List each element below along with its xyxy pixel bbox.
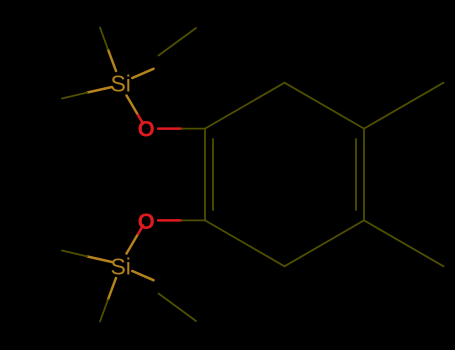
wire ring bond C5-B (bottom-right edge) <box>285 220 365 266</box>
wire O1-C1 bond carbon half <box>181 128 205 130</box>
svg-text:Si: Si <box>110 254 130 280</box>
wire ring bond C1=C2 inner line <box>212 139 214 210</box>
svg-text:O: O <box>138 209 155 234</box>
wire Si2-O2 bond red half <box>138 226 143 235</box>
svg-text:O: O <box>138 116 155 141</box>
wire ring bond C4=C5 inner line <box>355 139 357 210</box>
wire O2-C2 bond red half <box>158 219 181 222</box>
wire O1-C1 bond red half <box>158 127 181 130</box>
wire ring bond T-C4 (top-right edge) <box>285 83 365 129</box>
wire Si1 top methyl carbon half <box>100 28 108 50</box>
wire Si1 upper-right methyl carbon half <box>159 28 197 56</box>
wire methyl on C5 <box>364 220 444 266</box>
wire ring bond C1-C2 (double bond main line) <box>204 129 206 221</box>
wire Si1 left methyl carbon half <box>62 93 87 99</box>
wire Si1-O1 bond gold half <box>127 96 139 116</box>
wire Si2 lower-right methyl carbon half <box>159 294 197 322</box>
wire Si2 bottom methyl gold half <box>108 278 116 300</box>
svg-text:Si: Si <box>110 71 130 97</box>
wire methyl on C4 <box>364 83 444 129</box>
wire Si2 left methyl carbon half <box>62 251 87 257</box>
wire ring bond C1-T (top-left edge) <box>205 83 285 129</box>
wire ring bond C4-C5 (double bond main line) <box>363 129 365 221</box>
wire Si1 left methyl gold half <box>87 87 112 93</box>
wire Si1 upper-right methyl gold half <box>132 69 153 78</box>
wire Si2 lower-right methyl gold half <box>132 271 153 280</box>
wire Si2 bottom methyl carbon half <box>100 300 108 322</box>
wire Si1 top methyl gold half <box>108 50 116 72</box>
wire Si2 left methyl gold half <box>87 257 112 263</box>
wire ring bond B-C2 (bottom-left edge) <box>205 220 285 266</box>
wire Si1-O1 bond red half <box>138 115 143 124</box>
wire Si2-O2 bond gold half <box>127 234 139 254</box>
wire O2-C2 bond carbon half <box>181 219 205 221</box>
